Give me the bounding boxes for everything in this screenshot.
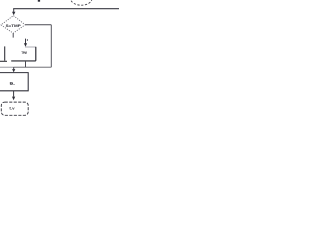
wire: arrow into box 2 (13, 67, 15, 69)
wire: arrow into box 1 (25, 39, 27, 44)
process box 2 (left edge cropped) (0, 73, 28, 91)
svg-text:9.: 9. (10, 81, 15, 86)
wire: stub below diamond (12, 33, 14, 37)
wire: arrow into terminator (13, 91, 15, 97)
wire: left elbow into box 1 (4, 46, 6, 60)
decision diamond (1, 16, 25, 34)
svg-text:t.v: t.v (9, 106, 14, 110)
small mark right of arrow (27, 39, 28, 40)
wire: top horizontal line to right edge (13, 8, 119, 10)
wire: loop vertical (50, 25, 52, 67)
process box 1 (left/top-left edges faded) (25, 46, 36, 48)
wire: stub below box 1 (25, 61, 27, 67)
terminator rounded box (1, 102, 28, 115)
wire: loop return horizontal (14, 66, 52, 68)
dashed ellipse annotation (cropped at top) (71, 0, 92, 5)
svg-text:TPM: TPM (21, 51, 27, 55)
wire: diamond right exit (25, 24, 51, 26)
svg-text:S=TMP: S=TMP (6, 24, 22, 28)
wire: arrow into diamond top (13, 9, 15, 12)
cropped label mark at top edge (38, 0, 40, 2)
